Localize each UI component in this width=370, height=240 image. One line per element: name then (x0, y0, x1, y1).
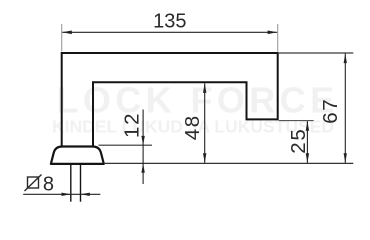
svg-text:12: 12 (120, 112, 143, 138)
dimension line 48 (204, 83, 206, 163)
spindle (70, 165, 72, 202)
extension line 25 (279, 120, 314, 122)
label square-slash symbol (28, 177, 39, 188)
baseline (104, 162, 353, 164)
dimension line diameter 8 (23, 193, 100, 195)
svg-text:25: 25 (287, 127, 310, 153)
svg-text:48: 48 (181, 114, 204, 140)
wire: extension line right of 135 (277, 24, 279, 52)
extension line top of 67 (279, 52, 354, 54)
rose dome (51, 147, 104, 164)
extension line 12 (99, 144, 153, 146)
handle profile (62, 53, 278, 146)
wire: extension line left of 135 (61, 24, 63, 51)
dimension line 135 (62, 31, 277, 33)
svg-text:135: 135 (153, 11, 186, 33)
svg-text:8: 8 (43, 174, 54, 196)
dimension line 25 (306, 121, 308, 163)
dimension line 12 (142, 110, 144, 185)
svg-text:67: 67 (319, 98, 342, 124)
dimension line 67 (344, 54, 346, 163)
